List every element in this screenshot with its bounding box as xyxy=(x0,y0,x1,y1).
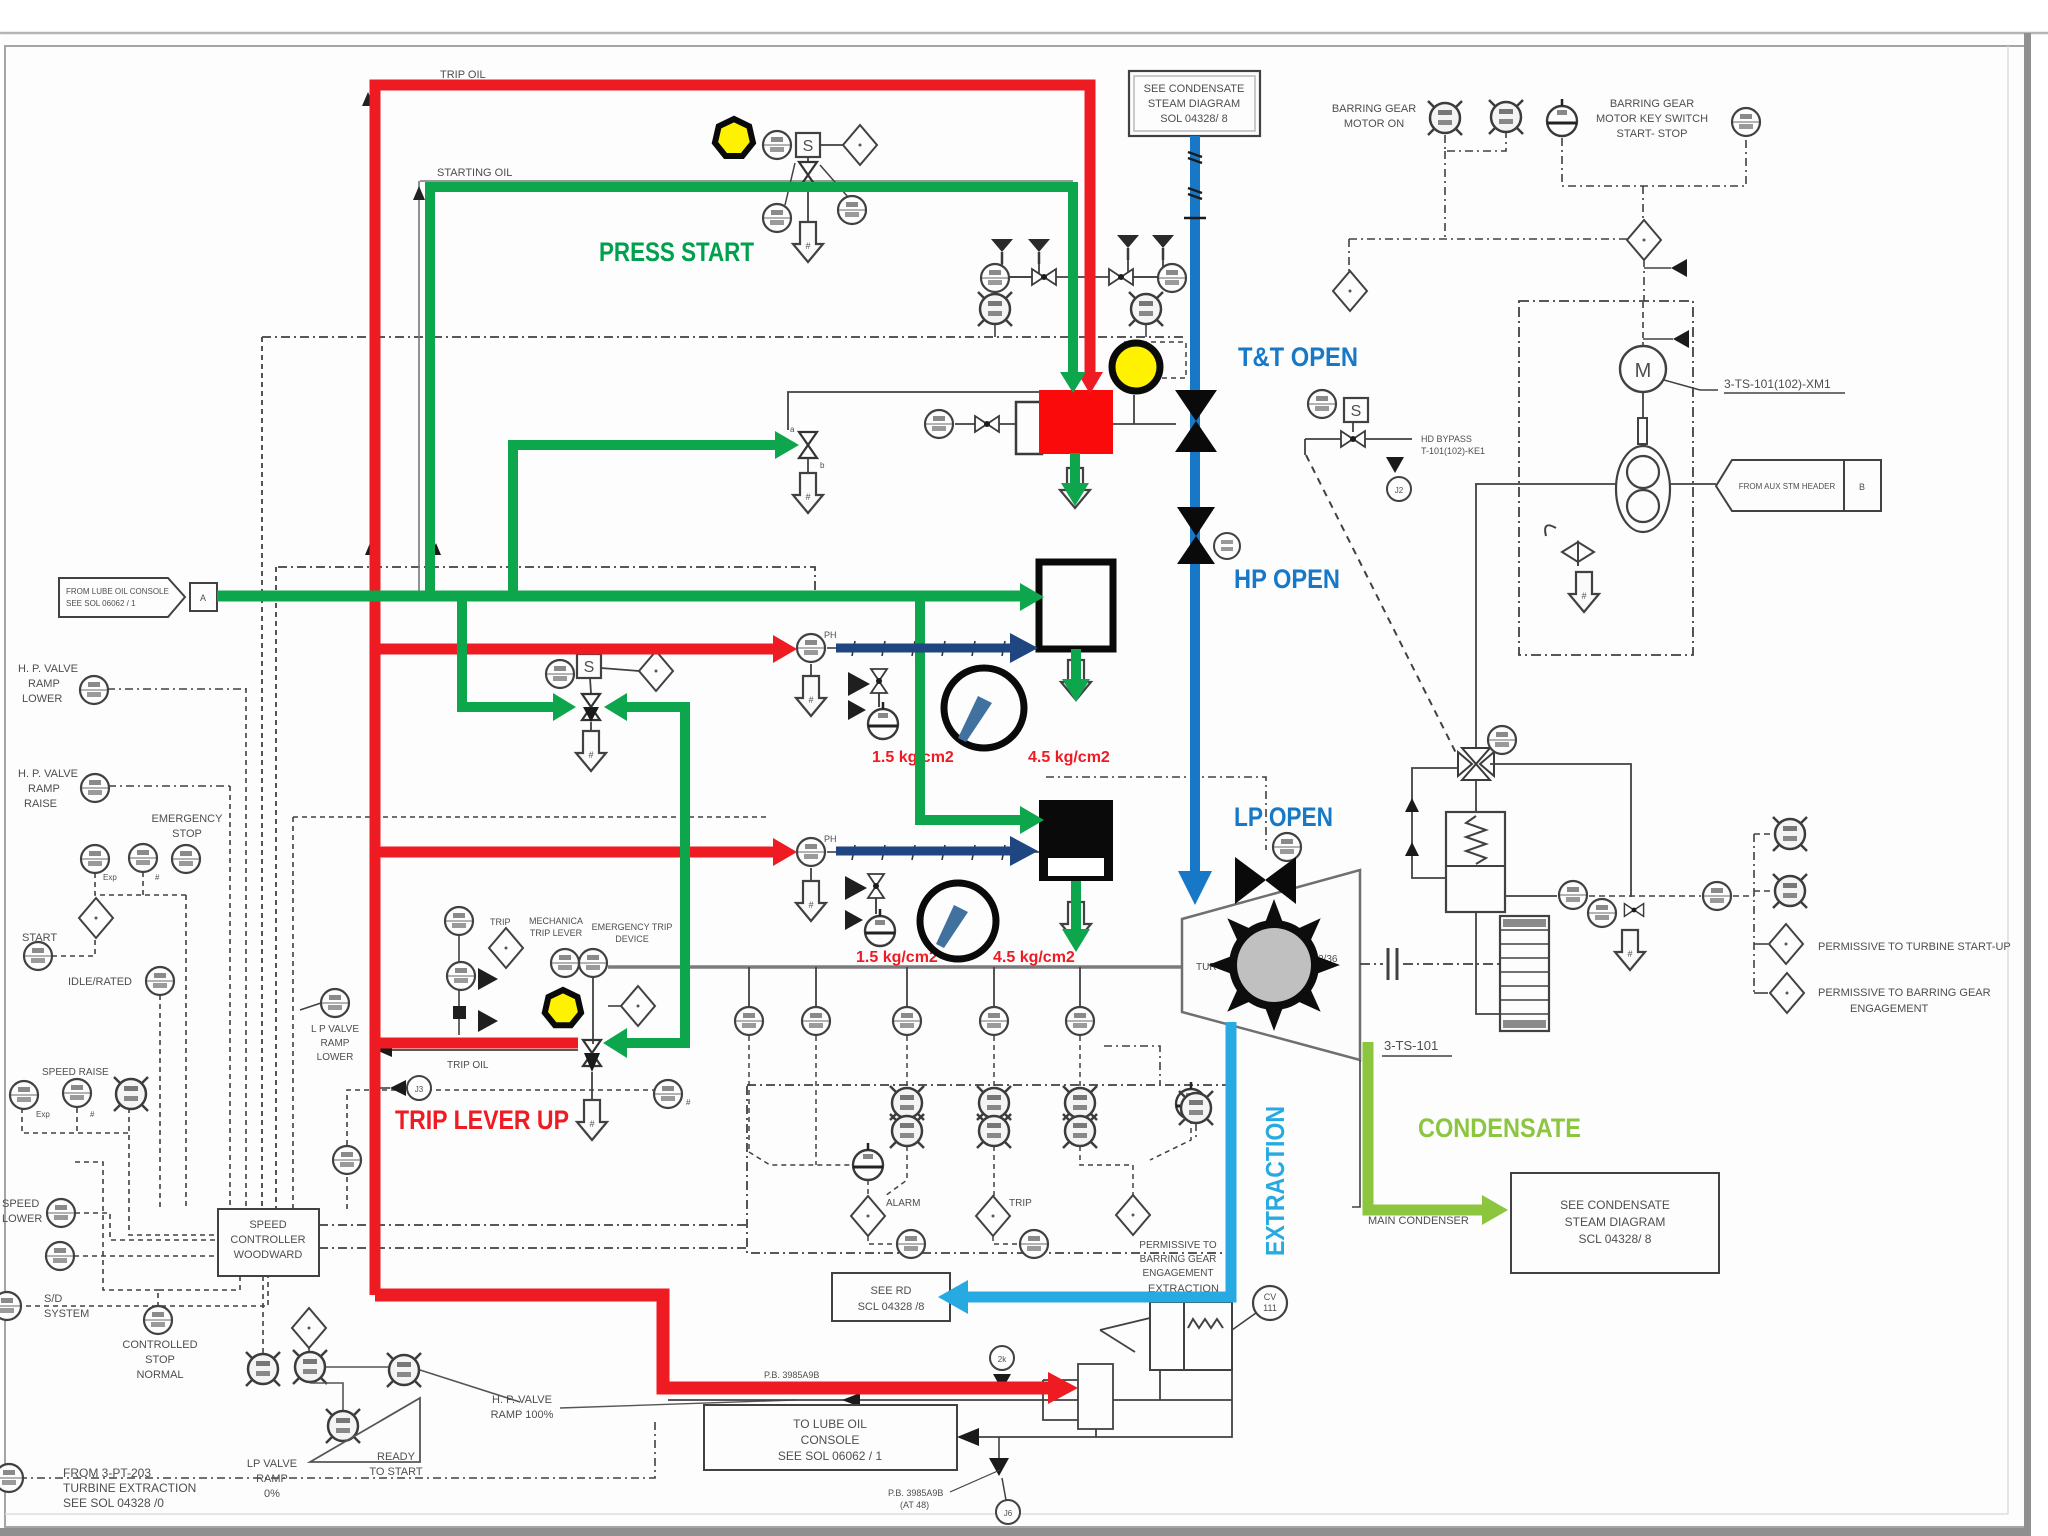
svg-text:NORMAL: NORMAL xyxy=(136,1369,183,1381)
wire: RED branch to PH upper xyxy=(375,644,780,655)
node: SEE RD box xyxy=(832,1273,950,1321)
wire: black pipe with ticks under navy (lower) xyxy=(827,845,1039,860)
instrument circle SE-110A xyxy=(893,1007,921,1035)
node: green arrowhead into T&T block xyxy=(1060,372,1086,393)
svg-text:TO LUBE OIL: TO LUBE OIL xyxy=(793,1417,867,1431)
node: left arrow + circle J xyxy=(375,1076,431,1100)
component: governor linkage left of CV xyxy=(1100,1318,1150,1352)
node: black up arrow on starting oil xyxy=(413,186,425,200)
svg-text:PH: PH xyxy=(824,834,837,844)
hand switch circle key start xyxy=(1547,99,1577,136)
svg-text:CONTROLLED: CONTROLLED xyxy=(122,1339,197,1351)
vent arrow below changeover valve xyxy=(576,731,606,771)
node: from lube oil console banner xyxy=(59,578,217,617)
motor M circle xyxy=(1620,302,1666,392)
svg-text:T&T OPEN: T&T OPEN xyxy=(1238,342,1358,372)
shape: LP valve ramp slope symbol xyxy=(310,1398,420,1462)
svg-text:RAMP: RAMP xyxy=(256,1473,288,1485)
svg-text:MOTOR KEY SWITCH: MOTOR KEY SWITCH xyxy=(1596,113,1708,125)
instrument circle PH lower (red arrow target) xyxy=(797,838,825,866)
node: tick arrow on trip oil vertical xyxy=(365,543,375,555)
svg-text:LOWER: LOWER xyxy=(317,1052,354,1063)
node: green arrowhead pilot valve xyxy=(775,431,799,459)
pilot light barring gear motor 2 xyxy=(1489,100,1523,134)
svg-text:(AT 48): (AT 48) xyxy=(900,1500,929,1510)
wire: GREEN below T&T block xyxy=(1070,453,1080,490)
valve: small bowtie before T&T block xyxy=(975,416,999,432)
pilot light circle perm 1 xyxy=(1773,817,1807,851)
component: reduction gear hatched box xyxy=(1500,916,1549,1031)
wire: NAVY hp signal upper xyxy=(836,644,1012,653)
component: barring gear interlock (two circles) xyxy=(1616,446,1670,532)
instrument circle SE-1118 xyxy=(802,1007,830,1035)
svg-text:SEE RD: SEE RD xyxy=(871,1285,912,1297)
logic diamond permissive start-up xyxy=(1769,924,1803,964)
svg-text:SYSTEM: SYSTEM xyxy=(44,1308,89,1320)
alarm horn circle xyxy=(853,1143,883,1180)
instrument pair 2a xyxy=(977,1086,1011,1120)
label: BARRING GEAR MOTOR KEY SWITCH START-STOP xyxy=(1596,98,1708,140)
svg-text:#: # xyxy=(155,873,160,882)
instrument circle trip-lever left xyxy=(551,949,579,977)
instrument circle emergency-stop row 1 xyxy=(81,845,109,873)
node: light blue arrowhead into SEE RD xyxy=(938,1280,968,1314)
label: H.P. VALVE RAMP RAISE xyxy=(18,768,78,810)
instrument circle lp-valve-ramp xyxy=(333,1146,361,1174)
x-circle cluster bottom-left 4 xyxy=(387,1353,421,1387)
valve: HP pilot valve (green arrow target) xyxy=(799,432,817,458)
vent arrow below HP pilot valve xyxy=(793,473,823,513)
instrument circle TG below valve xyxy=(763,204,791,232)
instrument circle mid (RT) xyxy=(321,989,349,1017)
svg-text:TRIP LEVER: TRIP LEVER xyxy=(530,928,583,938)
svg-text:#: # xyxy=(686,1098,691,1107)
svg-text:LP OPEN: LP OPEN xyxy=(1234,802,1333,832)
instrument circle PH upper (red arrow target) xyxy=(797,634,825,662)
label: L P VALVE RAMP LOWER xyxy=(311,1024,359,1063)
instrument x-circle below turbine xyxy=(1179,1091,1213,1125)
label: small note near pipe xyxy=(888,1470,1000,1510)
node: red arrowhead lube pilot xyxy=(1048,1372,1078,1404)
x-circle cluster bottom-left 3 xyxy=(326,1409,360,1443)
component: relief pair upper (triangle, valve, cross circle) xyxy=(848,669,898,739)
wire: GREEN starting oil run xyxy=(430,187,1073,596)
wire: dashed to SI circle xyxy=(1589,895,1701,897)
svg-text:B: B xyxy=(1859,482,1865,492)
svg-text:CONSOLE: CONSOLE xyxy=(801,1433,860,1447)
node: green arrowhead changeover left xyxy=(553,693,576,721)
wire: dashed box right of yellow circle xyxy=(1124,342,1186,378)
node: SEE CONDENSATE STEAM DIAGRAM box (top) xyxy=(1129,71,1260,136)
instrument circle CV-111 tag xyxy=(1232,1286,1287,1330)
svg-text:HP OPEN: HP OPEN xyxy=(1234,564,1340,594)
wire: speed raise bus drop x=129 xyxy=(129,1108,218,1235)
svg-text:HD BYPASS: HD BYPASS xyxy=(1421,434,1472,444)
svg-text:PERMISSIVE TO BARRING GEAR: PERMISSIVE TO BARRING GEAR xyxy=(1818,987,1991,999)
instrument circle SE-1H xyxy=(1559,881,1587,909)
svg-text:a: a xyxy=(790,425,795,434)
wire: diagonal dashed trip linkage xyxy=(1306,455,1458,757)
wire: trip lever stem xyxy=(592,978,594,1044)
node: TO LUBE OIL CONSOLE box xyxy=(704,1405,957,1470)
node: arrow into lube box xyxy=(957,1428,979,1446)
marker: yellow heptagon (press start button) xyxy=(715,119,753,156)
wire: dashed vertical bus x=262 xyxy=(261,337,263,1209)
wire: FI to box xyxy=(955,423,1016,425)
label: EXTRACTION STEAM (black) xyxy=(1148,1283,1219,1314)
wire: GREEN below LP servo xyxy=(1071,881,1081,934)
node: green arrowhead trip lever xyxy=(603,1028,627,1058)
instrument pair 3b xyxy=(1063,1114,1097,1148)
node: up arrows on bracket xyxy=(1405,798,1419,812)
wire: shaft right of turbine xyxy=(1360,948,1500,980)
wire: trip oil black line with left arrow xyxy=(376,1043,578,1057)
svg-text:H. P. VALVE: H. P. VALVE xyxy=(18,768,78,780)
wire: speed element line xyxy=(1505,895,1557,897)
vent arrow inside motor box xyxy=(1569,572,1599,612)
svg-text:FROM AUX STM HEADER: FROM AUX STM HEADER xyxy=(1739,482,1836,491)
instrument circle speed-raise 2 xyxy=(63,1079,91,1107)
wire: T&T block to steam valve xyxy=(1112,423,1176,425)
svg-text:SEE SOL 06062 / 1: SEE SOL 06062 / 1 xyxy=(778,1449,883,1463)
valve: emergency trip device valve xyxy=(583,1040,601,1099)
valve: LP stop valve (black bowtie) xyxy=(1235,857,1296,904)
svg-text:ENGAGEMENT: ENGAGEMENT xyxy=(1142,1268,1213,1279)
instrument circle FI near red box xyxy=(925,410,953,438)
wire: GREEN main oil header G1 xyxy=(217,591,1026,602)
node: black triangle on barring drop xyxy=(1671,259,1687,277)
svg-text:Exp: Exp xyxy=(36,1110,50,1119)
svg-text:TO START: TO START xyxy=(369,1466,422,1478)
wire: NAVY lp signal lower xyxy=(836,847,1012,856)
wire: thin loop around control valve area xyxy=(788,392,1039,430)
wire: dashed vertical bus x=246 xyxy=(245,688,247,1209)
instrument circle start xyxy=(24,942,52,970)
wire: condenser black line xyxy=(1352,1060,1360,1207)
label: EMERGENCY STOP xyxy=(152,813,224,840)
wire: dash from HP VALVE RAMP LOWER hand switch xyxy=(107,688,246,690)
pilot light circle perm 2 xyxy=(1773,874,1807,908)
instrument circle TK at LP valve xyxy=(1273,833,1301,861)
instrument circle speed-raise 3 xyxy=(114,1077,148,1111)
wire: lp valve ramp lower drop xyxy=(347,1090,660,1145)
component: relief pair lower (triangle, valve, cross circle) xyxy=(845,874,895,946)
wire: dashed vertical bus x=276 xyxy=(275,567,277,1209)
label: READY TO START xyxy=(369,1451,422,1478)
node: triangle up near lube box xyxy=(989,1458,1009,1476)
wire: turbine shaft mechanical line xyxy=(608,965,1182,969)
marker: yellow heptagon (trip lever) xyxy=(545,990,581,1025)
instrument circle idle-rated xyxy=(146,967,174,995)
svg-text:CV: CV xyxy=(1264,1292,1277,1302)
instrument circle emergency-stop row 2 xyxy=(129,844,157,872)
node: red arrowhead PH lower xyxy=(773,838,797,866)
vent arrow below T&T block (under green) xyxy=(1060,468,1090,508)
svg-text:STEAM DIAGRAM: STEAM DIAGRAM xyxy=(1148,98,1240,110)
label: H.P. VALVE RAMP 100% xyxy=(491,1394,795,1421)
wire: speed raise links xyxy=(22,1108,129,1133)
marker: magnifier circle upper with blue pen xyxy=(944,668,1024,748)
wire: dash from HP VALVE RAMP RAISE hand switch xyxy=(108,785,230,787)
svg-text:J3: J3 xyxy=(415,1085,424,1094)
svg-text:BARRING GEAR: BARRING GEAR xyxy=(1140,1254,1217,1265)
instrument circle speed-lower 1 xyxy=(47,1199,75,1227)
svg-text:DEVICE: DEVICE xyxy=(615,934,649,944)
wire: starting oil原 black line xyxy=(420,180,1073,182)
svg-text:CONDENSATE: CONDENSATE xyxy=(1418,1113,1581,1143)
svg-text:ENGAGEMENT: ENGAGEMENT xyxy=(1850,1003,1929,1015)
label: PERMISSIVE TO BARRING GEAR ENGAGEMENT xyxy=(1818,987,1991,1015)
wire: bottom piping black thin runs xyxy=(668,1370,1232,1437)
node: green arrowhead changeover right xyxy=(604,693,627,721)
wire: dashed vertical bus x=230 xyxy=(229,786,231,1209)
vent arrow below LP servo xyxy=(1061,902,1091,942)
svg-text:SEE SOL 06062 / 1: SEE SOL 06062 / 1 xyxy=(66,599,136,608)
valve: T&T stop valve (black bowtie on blue) xyxy=(1175,390,1217,452)
svg-text:1.5 kg/cm2: 1.5 kg/cm2 xyxy=(872,749,954,766)
svg-text:SEE SOL 04328 /0: SEE SOL 04328 /0 xyxy=(63,1496,164,1510)
wire: gear output line xyxy=(1475,483,1616,485)
logic diamond ALARM xyxy=(851,1196,885,1236)
node: pilot actuator rect xyxy=(1078,1364,1113,1429)
instrument circle SE-1108 xyxy=(735,1007,763,1035)
wire: dashes below turbine left xyxy=(1046,777,1266,1140)
x-circle cluster bottom-left 2 xyxy=(293,1350,327,1384)
svg-text:STOP: STOP xyxy=(172,828,202,840)
node: triangle down below circle xyxy=(993,1374,1011,1390)
wire: stem to vent arrow xyxy=(807,188,809,225)
svg-text:TURBINE EXTRACTION: TURBINE EXTRACTION xyxy=(63,1481,196,1495)
node: SEE CONDENSATE STEAM DIAGRAM box (bottom right) xyxy=(1511,1173,1719,1273)
svg-text:J2: J2 xyxy=(1395,486,1404,495)
node: motor shaft coupling bar xyxy=(1638,392,1647,452)
wire: GREEN branch down to LP servo xyxy=(920,591,1026,820)
svg-text:STEAM DIAGRAM: STEAM DIAGRAM xyxy=(1565,1215,1666,1229)
wire: LIGHT BLUE extraction line xyxy=(957,1022,1231,1297)
node: light green arrowhead into condensate box xyxy=(1482,1195,1508,1225)
label: LP VALVE RAMP 0% xyxy=(247,1458,297,1500)
instrument circle speed-raise 1 xyxy=(10,1081,38,1109)
wire: idle/rated drop xyxy=(159,994,161,996)
node: small black arrow on hp line xyxy=(404,644,420,654)
wire: controlled stop link xyxy=(158,1276,240,1307)
node: speed controller box xyxy=(218,1209,319,1276)
instrument circle FO right xyxy=(838,196,866,224)
instrument circle SM at HP valve xyxy=(1214,533,1240,559)
wire: GREEN below HP servo xyxy=(1071,649,1081,686)
node: RED T&T trip block xyxy=(1039,390,1113,454)
valve: starting oil changeover valve (green arrows target) xyxy=(582,694,600,733)
wire: dashed box top around trip area xyxy=(293,816,770,818)
svg-text:A: A xyxy=(200,593,206,603)
logic diamond ready-to-start xyxy=(292,1308,326,1348)
node: tick arrow on starting oil vertical xyxy=(431,543,441,555)
svg-text:L P VALVE: L P VALVE xyxy=(311,1024,359,1035)
instrument circle top-right of box xyxy=(1176,1082,1206,1119)
svg-text:H. P. VALVE: H. P. VALVE xyxy=(18,663,78,675)
logic diamond right of trip lever xyxy=(621,986,655,1026)
svg-text:MECHANICA: MECHANICA xyxy=(529,916,583,926)
logic diamond barring top xyxy=(1627,220,1661,260)
wire: SE drops into trip logic box xyxy=(749,1036,1080,1165)
instrument circle SE-110B xyxy=(980,1007,1008,1035)
component: solenoid assembly mid (SV circle, S box, diamond) xyxy=(546,651,673,693)
svg-text:PH: PH xyxy=(824,630,837,640)
vent arrow below starting-oil valve xyxy=(793,222,823,262)
svg-text:J6: J6 xyxy=(1004,1509,1013,1518)
hand switch circle key stop xyxy=(1732,108,1760,136)
svg-text:LOWER: LOWER xyxy=(2,1213,42,1225)
wire: from 3-PT-203 dashed run xyxy=(19,1420,655,1478)
svg-text:H. P. VALVE: H. P. VALVE xyxy=(492,1394,552,1406)
svg-text:RAMP: RAMP xyxy=(28,678,60,690)
svg-text:b: b xyxy=(820,461,825,470)
wire: links in bottom-left cluster xyxy=(262,1276,264,1353)
bottom shadow bar xyxy=(0,1528,2031,1536)
component: turbine wheel (gray sun gear) xyxy=(1208,899,1340,1031)
component: governor pilot 4-way valve xyxy=(1458,484,1494,780)
instrument HS hp-ramp-lower xyxy=(80,676,108,704)
wire: black pipe with ticks under navy (upper) xyxy=(827,641,1039,656)
component: drain funnel cluster left (x~1000,y~250) xyxy=(978,239,1160,337)
wire: long dash-dot control line B (y=567) xyxy=(278,567,815,592)
component: extraction control valve CV-111 xyxy=(1150,1302,1400,1370)
component: PS solenoid cluster left of motor box xyxy=(1305,390,1485,501)
svg-text:2k: 2k xyxy=(998,1355,1007,1364)
node: mid arrow on black pipe xyxy=(842,1393,860,1407)
label: CONTROLLED STOP NORMAL xyxy=(122,1339,197,1381)
instrument circle on extraction drop xyxy=(990,1346,1014,1370)
node: barring gear motor dashed enclosure xyxy=(1519,301,1693,655)
svg-text:BARRING GEAR: BARRING GEAR xyxy=(1610,98,1694,110)
svg-text:TRIP: TRIP xyxy=(490,917,511,927)
instrument circle PI governor xyxy=(1488,726,1516,754)
svg-text:3-TS-101(102)-XM1: 3-TS-101(102)-XM1 xyxy=(1724,377,1831,391)
node: white actuator box left of T&T block xyxy=(1016,402,1042,454)
valve: small bowtie at RD xyxy=(1624,904,1643,917)
valve: HP stop valve (black bowtie on blue) xyxy=(1177,507,1215,564)
svg-text:TRIP LEVER UP: TRIP LEVER UP xyxy=(395,1105,569,1135)
svg-text:PERMISSIVE TO TURBINE START-UP: PERMISSIVE TO TURBINE START-UP xyxy=(1818,941,2011,953)
svg-text:READY: READY xyxy=(377,1451,416,1463)
wire: BLUE main steam line xyxy=(1190,136,1200,872)
instrument circle J6 bottom xyxy=(996,1500,1020,1524)
wire: GREEN branch down to changeover valve (left feed) xyxy=(462,596,560,707)
svg-text:START- STOP: START- STOP xyxy=(1617,128,1688,140)
wire: long dash-dot control line A (y=337) xyxy=(262,336,1186,338)
wire: barring gear dashed wiring xyxy=(1349,133,1746,301)
svg-text:STARTING OIL: STARTING OIL xyxy=(437,167,512,179)
wire: emergency stop cluster drops xyxy=(95,873,186,895)
label: MECHANICAL TRIP LEVER xyxy=(529,916,583,938)
wire: PH stem down xyxy=(810,664,812,678)
logic diamond TRIP xyxy=(976,1196,1010,1236)
svg-text:MAIN CONDENSER: MAIN CONDENSER xyxy=(1368,1215,1469,1227)
svg-text:ALARM: ALARM xyxy=(886,1198,920,1209)
svg-text:WOODWARD: WOODWARD xyxy=(234,1249,303,1261)
svg-text:TRIP: TRIP xyxy=(1009,1198,1032,1209)
instrument circles SE row stems xyxy=(749,967,1080,1006)
wire: dashed vertical bus x=293 xyxy=(292,817,294,1209)
logic diamond start xyxy=(79,898,113,938)
svg-text:CONTROLLER: CONTROLLER xyxy=(230,1234,305,1246)
valve: starting oil solenoid valve xyxy=(799,162,817,188)
instrument circle below trip xyxy=(1020,1230,1048,1258)
wire: dashed vertical bus x=160 idle xyxy=(159,995,161,1209)
instrument circle below alarm xyxy=(897,1230,925,1258)
svg-text:P.B. 3985A9B: P.B. 3985A9B xyxy=(764,1370,819,1380)
svg-text:LP VALVE: LP VALVE xyxy=(247,1458,297,1470)
label: PERMISSIVE TO BARRING GEAR ENGAGEMENT xyxy=(1139,1240,1217,1279)
wire: start diamond link xyxy=(52,936,95,956)
svg-text:4.5 kg/cm2: 4.5 kg/cm2 xyxy=(1028,749,1110,766)
component: hand valve inside motor box xyxy=(1545,525,1594,566)
label: EMERGENCY TRIP DEVICE xyxy=(592,922,673,944)
component: speed governor spring box xyxy=(1446,780,1505,912)
instrument pair 3a xyxy=(1063,1086,1097,1120)
label: 3-TS-101 xyxy=(1382,1038,1452,1056)
marker: magnifier circle lower with blue pen xyxy=(920,883,996,959)
wire: s/d system link xyxy=(17,1276,268,1306)
instrument pair 1a xyxy=(890,1086,924,1120)
svg-text:FROM 3-PT-203: FROM 3-PT-203 xyxy=(63,1466,151,1480)
wire: link to lube oil line xyxy=(1043,1379,1078,1381)
wire: links inside trip box xyxy=(868,1119,1191,1244)
svg-text:RAMP: RAMP xyxy=(28,783,60,795)
svg-text:EMERGENCY TRIP: EMERGENCY TRIP xyxy=(592,922,673,932)
component: solenoid assembly on starting oil (PS circle, S box, diamond) xyxy=(763,125,877,165)
node: HP servo box (white, thick border) xyxy=(1039,562,1113,649)
svg-text:SEE CONDENSATE: SEE CONDENSATE xyxy=(1560,1198,1670,1212)
svg-text:EMERGENCY: EMERGENCY xyxy=(152,813,224,825)
wire: RED branch to PH lower xyxy=(375,847,780,858)
component: mechanical trip lever cluster xyxy=(445,907,523,1035)
node: green arrowhead into HP servo xyxy=(1020,583,1044,611)
label: 3-TS-101(102)-XM1 xyxy=(1664,377,1845,393)
label: FROM 3-PT-203 TURBINE EXTRACTION xyxy=(63,1466,196,1510)
wire: RED trip oil header (top) xyxy=(375,85,1090,1295)
instrument pair 2b xyxy=(977,1114,1011,1148)
instrument circle trip-lever right xyxy=(579,949,607,977)
svg-text:SCL 04328 /8: SCL 04328 /8 xyxy=(858,1301,925,1313)
wire: dash-dot pair speed controller to trip box xyxy=(319,1224,747,1226)
node: black up arrow left of trip oil xyxy=(362,92,374,106)
wire: speed lower links xyxy=(75,1213,218,1240)
svg-text:EXTRACTION: EXTRACTION xyxy=(1260,1106,1290,1256)
label: H.P. VALVE RAMP LOWER xyxy=(18,663,78,705)
node: turbine trapezoid body xyxy=(1182,870,1360,1060)
svg-text:Exp: Exp xyxy=(103,873,117,882)
instrument circle SE-110C xyxy=(1066,1007,1094,1035)
node: green arrowhead LP servo xyxy=(1020,806,1044,834)
node: blue arrowhead at LP inlet xyxy=(1178,871,1212,905)
svg-text:RAMP: RAMP xyxy=(321,1038,350,1049)
instrument circle speed-lower 2 xyxy=(46,1242,74,1270)
svg-text:#: # xyxy=(90,1110,95,1119)
logic diamond left barring xyxy=(1333,271,1367,311)
wire: GREEN drop to trip lever xyxy=(618,702,685,1043)
svg-text:SCL 04328/ 8: SCL 04328/ 8 xyxy=(1579,1232,1652,1246)
instrument circle s/d xyxy=(0,1292,21,1320)
instrument pair 1b xyxy=(890,1114,924,1148)
svg-text:111: 111 xyxy=(1263,1303,1277,1313)
svg-text:FROM LUBE OIL CONSOLE: FROM LUBE OIL CONSOLE xyxy=(66,587,169,596)
svg-text:BARRING GEAR: BARRING GEAR xyxy=(1332,103,1416,115)
instrument circle sl-th xyxy=(654,1080,682,1108)
instrument circle emergency-stop row 3 xyxy=(172,845,200,873)
wire: exp circle corner x=103 xyxy=(75,1162,160,1290)
vent arrow below PH upper xyxy=(796,676,826,716)
